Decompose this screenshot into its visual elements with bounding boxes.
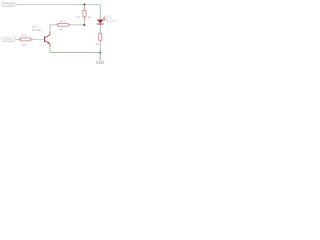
resistor R3 pins — [18, 38, 34, 40]
wire junction to ground — [99, 53, 101, 60]
LED D1 arrowheads — [104, 16, 105, 19]
svg-text:SIGNAL: SIGNAL — [3, 37, 13, 41]
wire right drop to LED — [99, 5, 101, 16]
background — [0, 0, 120, 66]
svg-text:GND: GND — [96, 60, 105, 65]
resistor R1 body — [83, 10, 86, 17]
wire R2 to bottom rail — [99, 43, 101, 52]
wire mid horizontal right — [71, 24, 85, 26]
wire flag to R3 — [16, 38, 18, 40]
svg-text:1k: 1k — [60, 27, 64, 31]
resistor R4 body — [58, 24, 68, 27]
LED D1 arrows — [103, 17, 106, 21]
wire R1 to mid node — [83, 20, 85, 25]
signal flag left — [1, 37, 16, 41]
junction top rail — [83, 3, 85, 5]
svg-text:POWER: POWER — [3, 3, 14, 7]
transistor Q1 — [45, 32, 50, 47]
wire LED to R2 — [99, 27, 101, 30]
junction bottom rail — [99, 51, 101, 53]
LED D1 triangle — [97, 20, 104, 24]
svg-text:1k: 1k — [95, 42, 99, 46]
svg-text:R4: R4 — [60, 20, 66, 24]
svg-text:R1: R1 — [77, 15, 81, 19]
wire mid horizontal left + corner down — [50, 25, 55, 32]
resistor R3 body — [20, 38, 31, 41]
resistor R2 pins — [99, 31, 101, 44]
svg-text:WP710A10: WP710A10 — [105, 18, 117, 22]
resistor R1 pins — [83, 5, 85, 20]
junction mid node — [83, 24, 85, 26]
svg-text:BC547: BC547 — [32, 28, 42, 32]
LED D1 cathode bar — [97, 23, 104, 25]
supply flag top-left — [2, 2, 17, 6]
LED D1 pins — [99, 15, 101, 27]
resistor R2 body — [99, 34, 102, 41]
wire emitter to bottom rail — [50, 47, 100, 53]
resistor R4 pins — [55, 24, 70, 26]
svg-text:10k: 10k — [21, 43, 27, 47]
wire R3 to base — [34, 38, 45, 40]
transistor Q1 emitter arrow — [47, 42, 49, 44]
svg-text:1k: 1k — [87, 15, 92, 19]
wire top rail — [17, 4, 100, 6]
ground bar — [98, 58, 103, 60]
svg-text:R3: R3 — [21, 34, 27, 38]
